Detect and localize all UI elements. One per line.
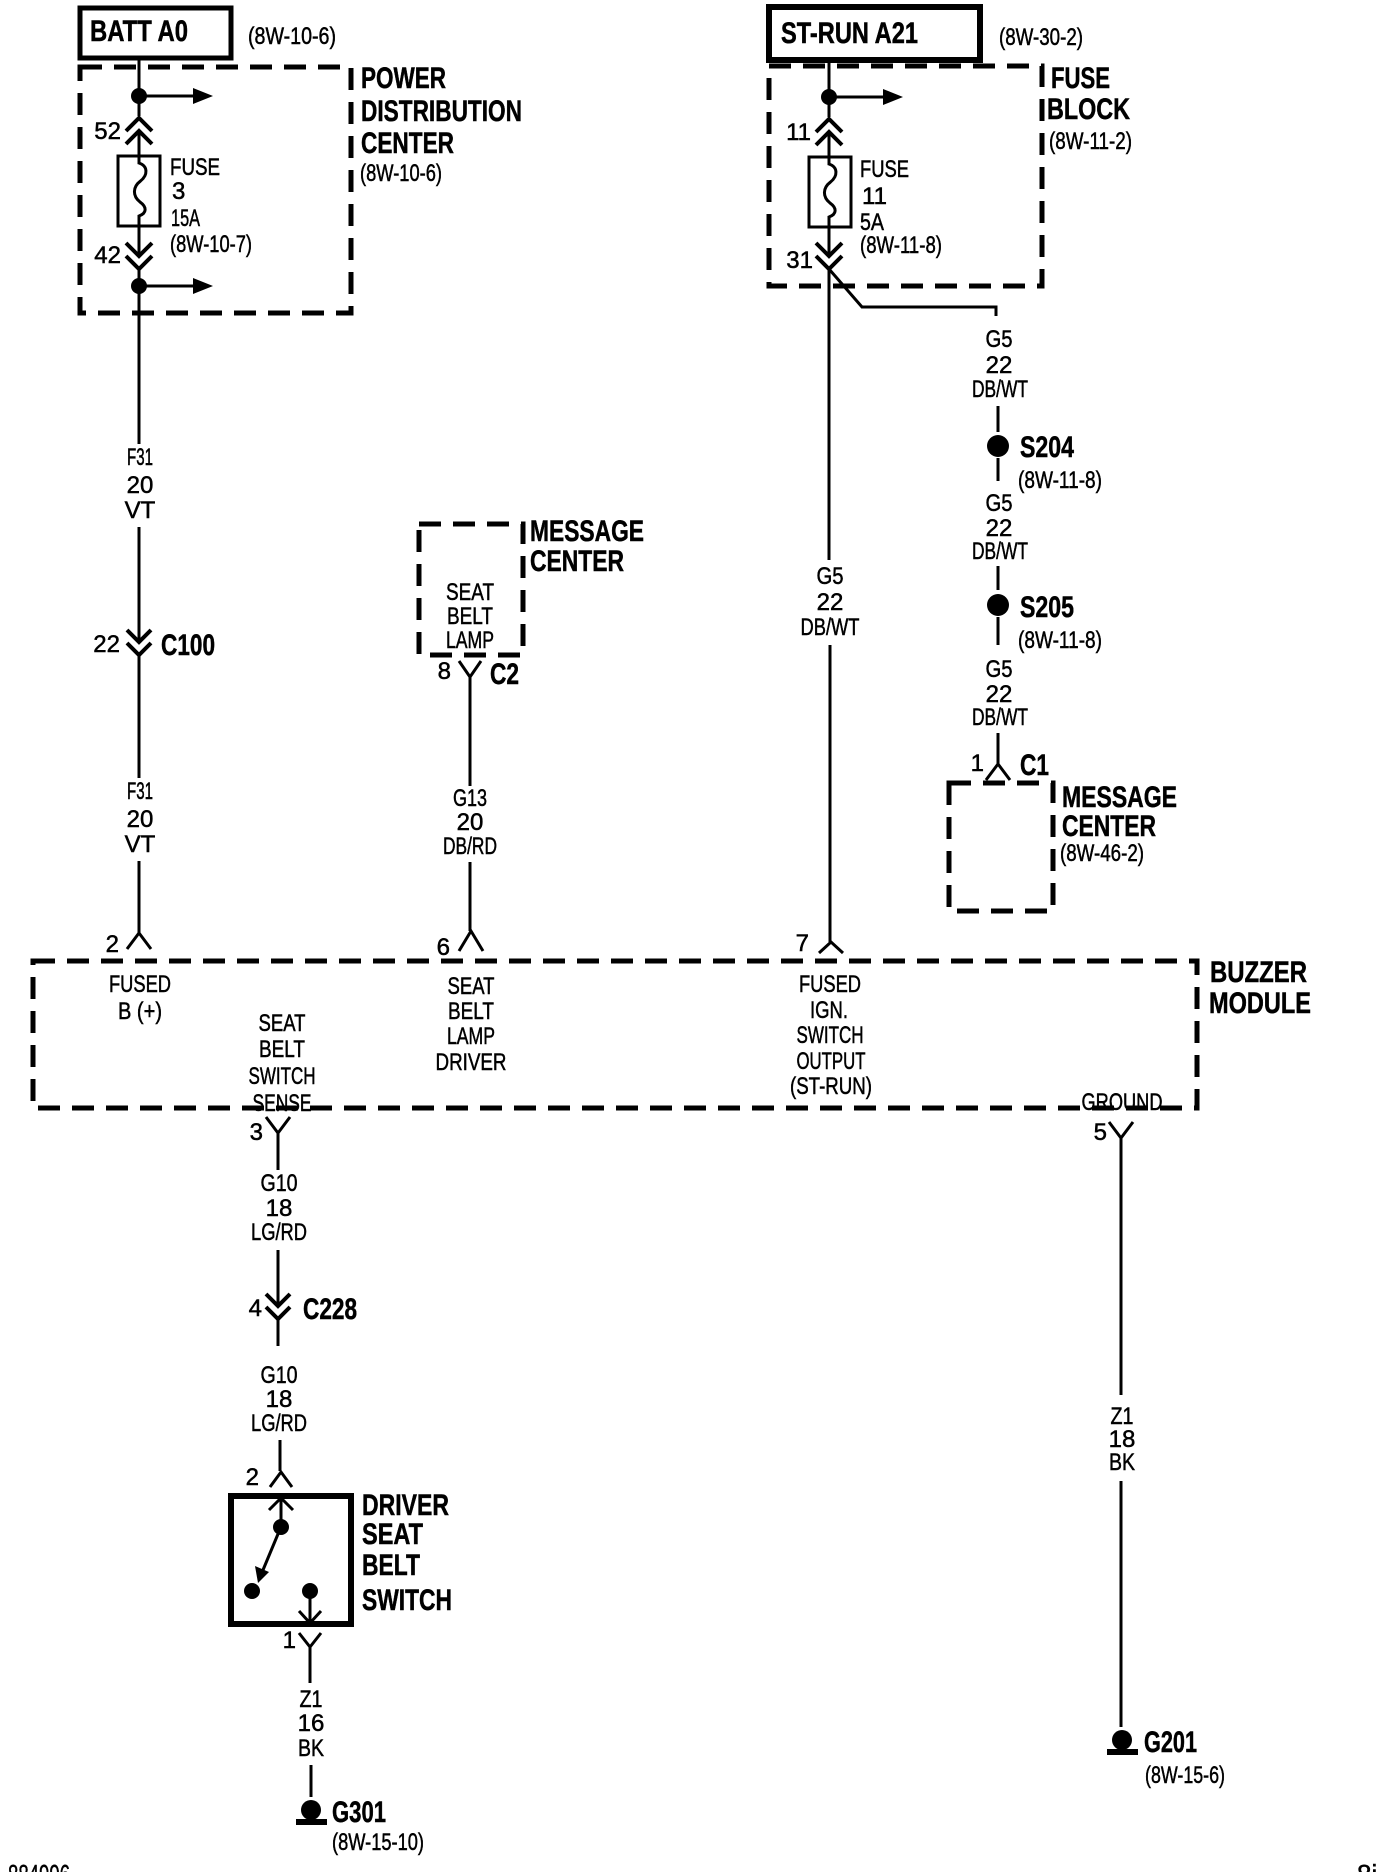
label MESSAGE CENTER (top middle) — [530, 515, 644, 578]
wire G5 main vertical — [828, 269, 831, 560]
svg-text:18: 18 — [266, 1195, 293, 1222]
wire label G5 22 DB/WT (main vertical) — [801, 563, 860, 641]
splice S205 — [987, 591, 1102, 654]
svg-text:(8W-10-7): (8W-10-7) — [170, 231, 252, 258]
node junction dot with feed arrow (bottom) — [131, 278, 213, 294]
svg-text:FUSE: FUSE — [860, 156, 909, 183]
svg-text:BATT A0: BATT A0 — [90, 15, 188, 48]
switch contact arrow up (pin 2 side) — [269, 1498, 293, 1535]
svg-text:LAMP: LAMP — [447, 1023, 495, 1050]
svg-text:884996: 884996 — [8, 1859, 70, 1872]
svg-text:11: 11 — [786, 119, 811, 146]
svg-text:FUSE: FUSE — [170, 154, 220, 181]
wire — [138, 655, 141, 778]
svg-text:1: 1 — [971, 750, 984, 777]
svg-text:GROUND: GROUND — [1082, 1089, 1163, 1116]
pin 3 label SEAT BELT SWITCH SENSE — [249, 1010, 316, 1117]
svg-text:3: 3 — [172, 178, 185, 205]
svg-text:FUSED: FUSED — [799, 971, 861, 998]
svg-text:(8W-15-6): (8W-15-6) — [1145, 1762, 1225, 1789]
wire — [997, 733, 1000, 749]
wire label G5 22 DB/WT (splice chain lower) — [972, 656, 1028, 731]
svg-text:FUSED: FUSED — [109, 971, 171, 998]
wire to buzzer pin 6 — [469, 862, 472, 931]
wire to switch pin 2 — [279, 1440, 282, 1471]
svg-text:SENSE: SENSE — [253, 1090, 312, 1117]
wire to buzzer pin 2 — [138, 861, 141, 933]
svg-text:G301: G301 — [332, 1796, 386, 1829]
svg-text:DRIVER: DRIVER — [436, 1049, 507, 1076]
label DRIVER SEAT BELT SWITCH — [362, 1489, 452, 1617]
pin 2 label FUSED B (+) — [109, 971, 171, 1025]
svg-text:7: 7 — [796, 930, 809, 957]
svg-text:(8W-11-2): (8W-11-2) — [1049, 128, 1132, 155]
svg-text:(8W-10-6): (8W-10-6) — [360, 160, 442, 187]
svg-text:(8W-30-2): (8W-30-2) — [999, 24, 1083, 51]
svg-text:4: 4 — [249, 1295, 262, 1322]
connector C1 pin 1 fork — [971, 749, 1049, 782]
wire — [138, 527, 141, 641]
svg-text:G5: G5 — [986, 490, 1013, 517]
svg-text:(8W-11-8): (8W-11-8) — [1018, 627, 1102, 654]
ground G201 — [1107, 1726, 1225, 1789]
label FUSE BLOCK (8W-11-2) — [1047, 62, 1132, 155]
svg-text:22: 22 — [986, 352, 1013, 379]
wire label G13 20 DB/RD — [443, 785, 497, 860]
svg-text:C2: C2 — [490, 658, 519, 691]
wire — [997, 617, 1000, 645]
svg-text:DB/WT: DB/WT — [972, 704, 1028, 731]
svg-text:POWER: POWER — [361, 62, 446, 95]
svg-text:Z1: Z1 — [300, 1686, 323, 1713]
svg-text:31: 31 — [786, 247, 813, 274]
wire to buzzer pin 7 — [829, 645, 832, 942]
fuse block dashed box — [769, 66, 1042, 286]
svg-text:DISTRIBUTION: DISTRIBUTION — [361, 95, 522, 128]
wire label G5 22 DB/WT (splice chain mid) — [972, 490, 1028, 565]
svg-text:20: 20 — [127, 806, 154, 833]
svg-text:(8W-11-8): (8W-11-8) — [860, 232, 942, 259]
svg-text:52: 52 — [94, 118, 121, 145]
connector C228 pin 4 double chevron — [249, 1293, 357, 1326]
svg-text:20: 20 — [457, 809, 484, 836]
svg-text:1: 1 — [283, 1627, 296, 1654]
svg-text:G5: G5 — [817, 563, 844, 590]
connector pin 52 double chevron — [94, 118, 152, 145]
svg-text:2: 2 — [246, 1464, 259, 1491]
svg-text:DB/WT: DB/WT — [801, 614, 860, 641]
connector C100 pin 22 double chevron — [93, 629, 215, 662]
svg-text:SWITCH: SWITCH — [362, 1584, 452, 1617]
wire label F31 20 VT (lower) — [125, 778, 156, 858]
wire F31 from PDC down — [138, 269, 141, 444]
svg-text:LG/RD: LG/RD — [251, 1219, 307, 1246]
wire — [997, 406, 1000, 432]
svg-text:IGN.: IGN. — [810, 997, 848, 1024]
power distribution center dashed box — [80, 67, 351, 313]
buzzer module dashed box — [33, 961, 1197, 1108]
svg-text:SWITCH: SWITCH — [249, 1063, 316, 1090]
svg-text:DB/RD: DB/RD — [443, 833, 497, 860]
label POWER DISTRIBUTION CENTER (8W-10-6) — [360, 62, 522, 187]
wire — [277, 1319, 280, 1346]
wire G10 upper — [277, 1157, 280, 1170]
svg-text:42: 42 — [94, 242, 121, 269]
ground G301 — [296, 1796, 424, 1856]
wire label G10 18 LG/RD (upper) — [251, 1170, 307, 1246]
svg-text:3: 3 — [250, 1119, 263, 1146]
svg-text:MODULE: MODULE — [1209, 987, 1311, 1020]
buzzer module pin 2 fork — [106, 931, 151, 958]
wire — [997, 566, 1000, 590]
svg-text:(8W-15-10): (8W-15-10) — [332, 1829, 424, 1856]
svg-text:ST-RUN A21: ST-RUN A21 — [781, 17, 918, 50]
svg-text:CENTER: CENTER — [361, 127, 454, 160]
fuse F11 value label — [860, 156, 942, 259]
svg-text:G5: G5 — [986, 326, 1013, 353]
svg-text:CENTER: CENTER — [530, 545, 624, 578]
pin 7 label FUSED IGN. SWITCH OUTPUT (ST-RUN) — [790, 971, 872, 1100]
connector pin 11 double chevron — [786, 119, 842, 146]
svg-text:DB/WT: DB/WT — [972, 538, 1028, 565]
svg-text:8: 8 — [438, 658, 451, 685]
power feed box ST-RUN A21 — [769, 7, 980, 60]
connector pin 42 double chevron — [94, 226, 152, 269]
svg-text:8i: 8i — [1357, 1859, 1376, 1872]
label BUZZER MODULE — [1209, 956, 1311, 1020]
wire label Z1 16 BK — [298, 1686, 325, 1762]
node junction dot with feed arrow (top) — [131, 88, 213, 104]
svg-text:(8W-10-6): (8W-10-6) — [248, 23, 336, 50]
svg-text:C1: C1 — [1020, 749, 1049, 782]
svg-text:B (+): B (+) — [118, 998, 162, 1025]
svg-text:SEAT: SEAT — [446, 579, 494, 606]
seat belt lamp text — [446, 579, 494, 654]
wire — [1120, 1481, 1123, 1727]
svg-text:BELT: BELT — [362, 1549, 420, 1582]
svg-text:11: 11 — [862, 183, 887, 210]
svg-text:20: 20 — [127, 472, 154, 499]
svg-text:SWITCH: SWITCH — [797, 1022, 864, 1049]
driver seat belt switch box — [231, 1496, 351, 1624]
svg-text:G10: G10 — [261, 1362, 298, 1389]
svg-text:MESSAGE: MESSAGE — [530, 515, 644, 548]
svg-text:LAMP: LAMP — [446, 627, 494, 654]
svg-text:F31: F31 — [127, 444, 153, 471]
svg-text:G10: G10 — [261, 1170, 298, 1197]
power feed box BATT A0 — [80, 8, 231, 58]
message center dashed box (seat belt lamp) — [419, 524, 523, 655]
svg-text:BK: BK — [298, 1735, 324, 1762]
switch fixed contact to pin 1 with arrow down — [299, 1583, 321, 1623]
svg-text:S204: S204 — [1020, 431, 1074, 464]
svg-text:G13: G13 — [453, 785, 487, 812]
svg-text:S205: S205 — [1020, 591, 1074, 624]
wire — [997, 458, 1000, 481]
fuse F11 5A symbol — [809, 157, 851, 227]
pin 6 label SEAT BELT LAMP DRIVER — [436, 973, 507, 1076]
svg-text:FUSE: FUSE — [1051, 62, 1110, 95]
svg-text:VT: VT — [125, 831, 156, 858]
svg-text:G5: G5 — [986, 656, 1013, 683]
wire branch to splice chain — [829, 269, 996, 316]
svg-text:BELT: BELT — [259, 1036, 305, 1063]
svg-text:SEAT: SEAT — [362, 1518, 423, 1551]
buzzer module pin 5 fork — [1094, 1119, 1133, 1160]
svg-text:C100: C100 — [161, 629, 215, 662]
wire label G5 22 DB/WT (branch top) — [972, 326, 1028, 403]
node junction dot with feed arrow (fuse block) — [821, 89, 903, 105]
svg-text:F31: F31 — [127, 778, 153, 805]
svg-text:SEAT: SEAT — [259, 1010, 306, 1037]
svg-text:SEAT: SEAT — [448, 973, 495, 1000]
connector C2 pin 8 fork — [438, 658, 519, 702]
fuse F3 value label — [170, 154, 252, 258]
wire Z1 to ground — [1120, 1160, 1123, 1395]
svg-text:CENTER: CENTER — [1062, 810, 1156, 843]
wire chevron to fuse — [138, 132, 141, 156]
svg-text:(ST-RUN): (ST-RUN) — [790, 1073, 872, 1100]
wire label G10 18 LG/RD (lower) — [251, 1362, 307, 1437]
svg-text:6: 6 — [437, 934, 450, 961]
svg-text:2: 2 — [106, 931, 119, 958]
wire chevron to fuse — [828, 133, 831, 157]
fuse F3 15A symbol — [118, 156, 160, 226]
wire G13 — [469, 702, 472, 786]
svg-text:BLOCK: BLOCK — [1047, 93, 1130, 126]
wire label F31 20 VT (upper) — [125, 444, 156, 524]
svg-text:5: 5 — [1094, 1119, 1107, 1146]
wire — [277, 1250, 280, 1305]
svg-text:18: 18 — [266, 1386, 293, 1413]
svg-text:BELT: BELT — [447, 603, 493, 630]
buzzer module pin 3 fork — [250, 1117, 290, 1157]
splice S204 — [987, 431, 1102, 494]
svg-text:LG/RD: LG/RD — [251, 1410, 307, 1437]
label MESSAGE CENTER (8W-46-2) — [1060, 781, 1177, 867]
wire from BATT A0 into PDC — [138, 58, 141, 116]
switch pin 1 fork — [283, 1627, 321, 1683]
svg-text:16: 16 — [298, 1710, 325, 1737]
svg-text:DB/WT: DB/WT — [972, 376, 1028, 403]
svg-text:(8W-46-2): (8W-46-2) — [1060, 840, 1144, 867]
switch pin 2 fork — [246, 1464, 292, 1491]
svg-text:15A: 15A — [171, 205, 200, 232]
wire from ST-RUN into fuse block — [828, 60, 831, 117]
buzzer module pin 7 fork — [796, 930, 843, 957]
svg-text:VT: VT — [125, 497, 156, 524]
switch movable contact arm with arrow — [244, 1534, 278, 1599]
svg-text:OUTPUT: OUTPUT — [797, 1048, 866, 1075]
svg-text:BELT: BELT — [448, 998, 494, 1025]
svg-text:C228: C228 — [303, 1293, 357, 1326]
svg-text:22: 22 — [817, 589, 844, 616]
connector pin 31 double chevron — [786, 227, 842, 274]
svg-text:22: 22 — [93, 631, 120, 658]
svg-text:BK: BK — [1109, 1449, 1135, 1476]
svg-text:BUZZER: BUZZER — [1210, 956, 1307, 989]
buzzer module pin 6 fork — [437, 931, 483, 961]
svg-text:G201: G201 — [1144, 1726, 1197, 1759]
wire to ground G301 — [310, 1765, 313, 1797]
message center dashed box (right) — [949, 783, 1053, 911]
wire label Z1 18 BK — [1109, 1403, 1136, 1476]
svg-text:(8W-11-8): (8W-11-8) — [1018, 467, 1102, 494]
